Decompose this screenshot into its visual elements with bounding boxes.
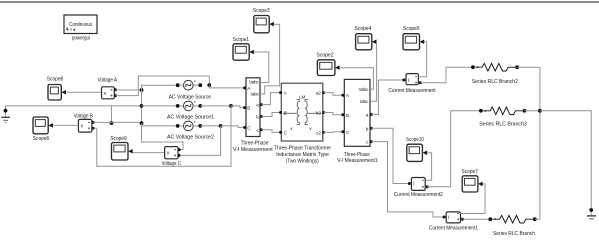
svg-text:Scope9: Scope9	[110, 136, 126, 142]
top window border	[0, 1, 599, 3]
svg-text:Scope1: Scope1	[233, 37, 249, 43]
scope Scope2	[317, 60, 339, 76]
wire: CM1 i to Scope7	[461, 184, 486, 214]
wire: CM2 i to Scope10	[425, 153, 431, 181]
node: source2 right terminal	[198, 124, 202, 128]
svg-text:c2: c2	[316, 130, 321, 135]
svg-text:Vabc: Vabc	[358, 87, 369, 92]
svg-text:i: i	[408, 78, 409, 84]
resistor Series RLC Branch	[488, 215, 536, 223]
svg-text:Series RLC Branch2: Series RLC Branch2	[472, 79, 518, 85]
svg-text:Scope8: Scope8	[47, 76, 63, 82]
wire: load bus to right ground	[540, 111, 591, 216]
svg-text:V-I Measurement1: V-I Measurement1	[337, 158, 378, 164]
wire: Voltage A v to Scope8	[66, 91, 102, 93]
wire: Voltage C v to Scope9	[133, 152, 165, 154]
current measurement CM1	[443, 212, 464, 223]
wire: source1 to U1 B	[200, 105, 231, 107]
resistor Series RLC Branch3	[479, 107, 526, 115]
svg-text:Continuous: Continuous	[69, 22, 92, 28]
node: source A right terminal	[198, 83, 202, 87]
svg-text:i: i	[448, 215, 449, 221]
svg-text:(Two Windings): (Two Windings)	[286, 158, 319, 164]
wire: U1 Vabc to Scope1	[253, 52, 268, 83]
svg-text:Voltage B: Voltage B	[74, 114, 93, 120]
svg-text:Three-Phase Transformer: Three-Phase Transformer	[274, 145, 331, 151]
svg-text:Scope10: Scope10	[406, 137, 424, 143]
wire: T1 b2 to U2 B	[324, 113, 343, 115]
node: source A left terminal	[176, 83, 180, 87]
wire: U1 b to T1 B	[261, 113, 280, 117]
wire: bus to source A left	[142, 85, 178, 90]
wire: Branch3 to load bus	[525, 110, 540, 112]
voltage measurement Voltage B	[78, 119, 94, 132]
wire: branch to load bus bottom	[535, 218, 540, 220]
node	[110, 121, 114, 125]
svg-text:Scope6: Scope6	[33, 136, 49, 142]
wire: bus down to Voltage C +	[142, 123, 184, 149]
node: source1 right terminal	[198, 104, 202, 108]
svg-text:LM: LM	[299, 95, 305, 100]
wire: U2 Vabc to Scope2	[339, 68, 373, 90]
AC Voltage Source	[180, 80, 200, 90]
three-phase V-I measurement U2	[341, 79, 372, 146]
scope Scope1	[233, 44, 254, 60]
wire: U1 c to T1 C	[261, 130, 280, 133]
AC Voltage Source1	[180, 101, 200, 111]
wire: source A to U1 A	[209, 85, 244, 88]
AC Voltage Source2	[180, 121, 200, 131]
svg-text:B: B	[247, 106, 250, 111]
svg-text:i: i	[413, 182, 414, 188]
node: source1 left terminal	[176, 104, 180, 108]
svg-text:Vabc: Vabc	[249, 79, 260, 84]
wire: Voltage A + to bus	[116, 89, 142, 91]
current measurement CM2	[408, 178, 429, 191]
wire: Voltage C - to phase C junction	[180, 126, 221, 155]
powergui block	[64, 15, 97, 34]
wire: T1 c2 to U2 C	[324, 131, 343, 134]
three-phase V-I measurement U1	[243, 78, 263, 137]
svg-text:Voltage C: Voltage C	[162, 161, 181, 167]
svg-text:Scope7: Scope7	[462, 169, 478, 175]
node: phase B junction	[229, 104, 233, 108]
wire: U2 c to CM1	[371, 142, 444, 217]
ground G2	[587, 208, 596, 219]
scope Scope5	[403, 34, 424, 50]
svg-text:Inductance Matrix Type: Inductance Matrix Type	[276, 152, 329, 158]
wire: CM1 - to Series RLC Branch	[463, 218, 491, 220]
node: load bus junction	[538, 109, 542, 113]
node: bus junction A	[140, 88, 144, 92]
wire: U2 b to CM2	[371, 128, 409, 183]
svg-text:Scope5: Scope5	[403, 26, 420, 32]
voltage measurement Voltage A	[102, 87, 118, 99]
wire: CM i to Scope5	[418, 42, 426, 77]
node: phase C junction	[219, 124, 223, 128]
wire: bus to source2 left	[142, 123, 178, 126]
scope Scope8	[48, 85, 66, 101]
transformer T1	[279, 83, 325, 141]
wire: U2 Iabc to Scope4	[370, 42, 377, 101]
svg-text:B: B	[346, 113, 349, 118]
wire: ground to neutral bus	[6, 105, 142, 107]
node: bus row C junction	[140, 121, 144, 125]
svg-text:a2: a2	[316, 91, 321, 96]
svg-text:AC Voltage Source1: AC Voltage Source1	[167, 114, 214, 120]
node: bus ground junction	[140, 104, 144, 108]
svg-text:Series RLC Branch: Series RLC Branch	[493, 231, 535, 237]
scope Scope7	[462, 176, 482, 192]
svg-text:Iabc: Iabc	[250, 91, 259, 96]
current measurement CM	[402, 74, 422, 85]
wire: Voltage A - top route	[116, 76, 210, 96]
scope Scope4	[356, 34, 377, 50]
svg-text:V-I Measurement: V-I Measurement	[233, 147, 273, 153]
wire: U1 a to T1 A	[261, 93, 280, 105]
wire: bus to source1 left	[142, 105, 178, 107]
svg-text:AC Voltage Source: AC Voltage Source	[169, 94, 211, 100]
resistor Series RLC Branch2	[471, 63, 519, 71]
node: source2 left terminal	[176, 124, 180, 128]
wire: Branch2 to load bus	[517, 66, 540, 68]
svg-text:Three-Phase: Three-Phase	[344, 152, 370, 158]
wire: source2 to U1 C	[200, 125, 220, 127]
svg-text:powergui: powergui	[72, 35, 90, 41]
ground G1	[1, 106, 10, 123]
scope Scope3	[254, 16, 274, 33]
wire: CM2 - to Branch3	[427, 111, 481, 187]
svg-text:Scope2: Scope2	[317, 52, 334, 58]
svg-text:Voltage A: Voltage A	[98, 77, 118, 83]
svg-text:AC Voltage Source2: AC Voltage Source2	[167, 135, 214, 141]
wire: Voltage B v to Scope6	[53, 124, 79, 126]
svg-text:Scope4: Scope4	[355, 26, 372, 32]
wire: U1 Iabc to Scope3	[260, 24, 280, 94]
node: phase A junction	[207, 83, 211, 87]
svg-text:Series RLC Branch3: Series RLC Branch3	[479, 122, 527, 128]
voltage measurement Voltage C	[165, 147, 181, 159]
wire: load bus vertical	[539, 67, 541, 219]
scope Scope6	[33, 117, 53, 134]
wire: Voltage B + to bus	[93, 121, 141, 123]
wire: CM - to Branch2	[420, 67, 473, 83]
wire: neutral stub to Voltage B row	[111, 106, 113, 123]
svg-text:Scope3: Scope3	[253, 8, 270, 14]
svg-text:Current Measurement1: Current Measurement1	[429, 225, 478, 231]
svg-text:Three-Phase: Three-Phase	[241, 140, 269, 146]
wire: Voltage B - bottom loop	[93, 106, 231, 166]
wire: T1 a2 to U2 A	[324, 93, 343, 96]
scope Scope9	[112, 143, 133, 161]
svg-text:Current Measurement: Current Measurement	[388, 88, 436, 94]
wire: U2 a to CM	[371, 80, 404, 115]
svg-text:Iabc: Iabc	[360, 99, 369, 104]
neutral bus	[141, 85, 143, 123]
scope Scope10	[407, 144, 427, 161]
svg-text:Current Measurement2: Current Measurement2	[394, 192, 443, 198]
